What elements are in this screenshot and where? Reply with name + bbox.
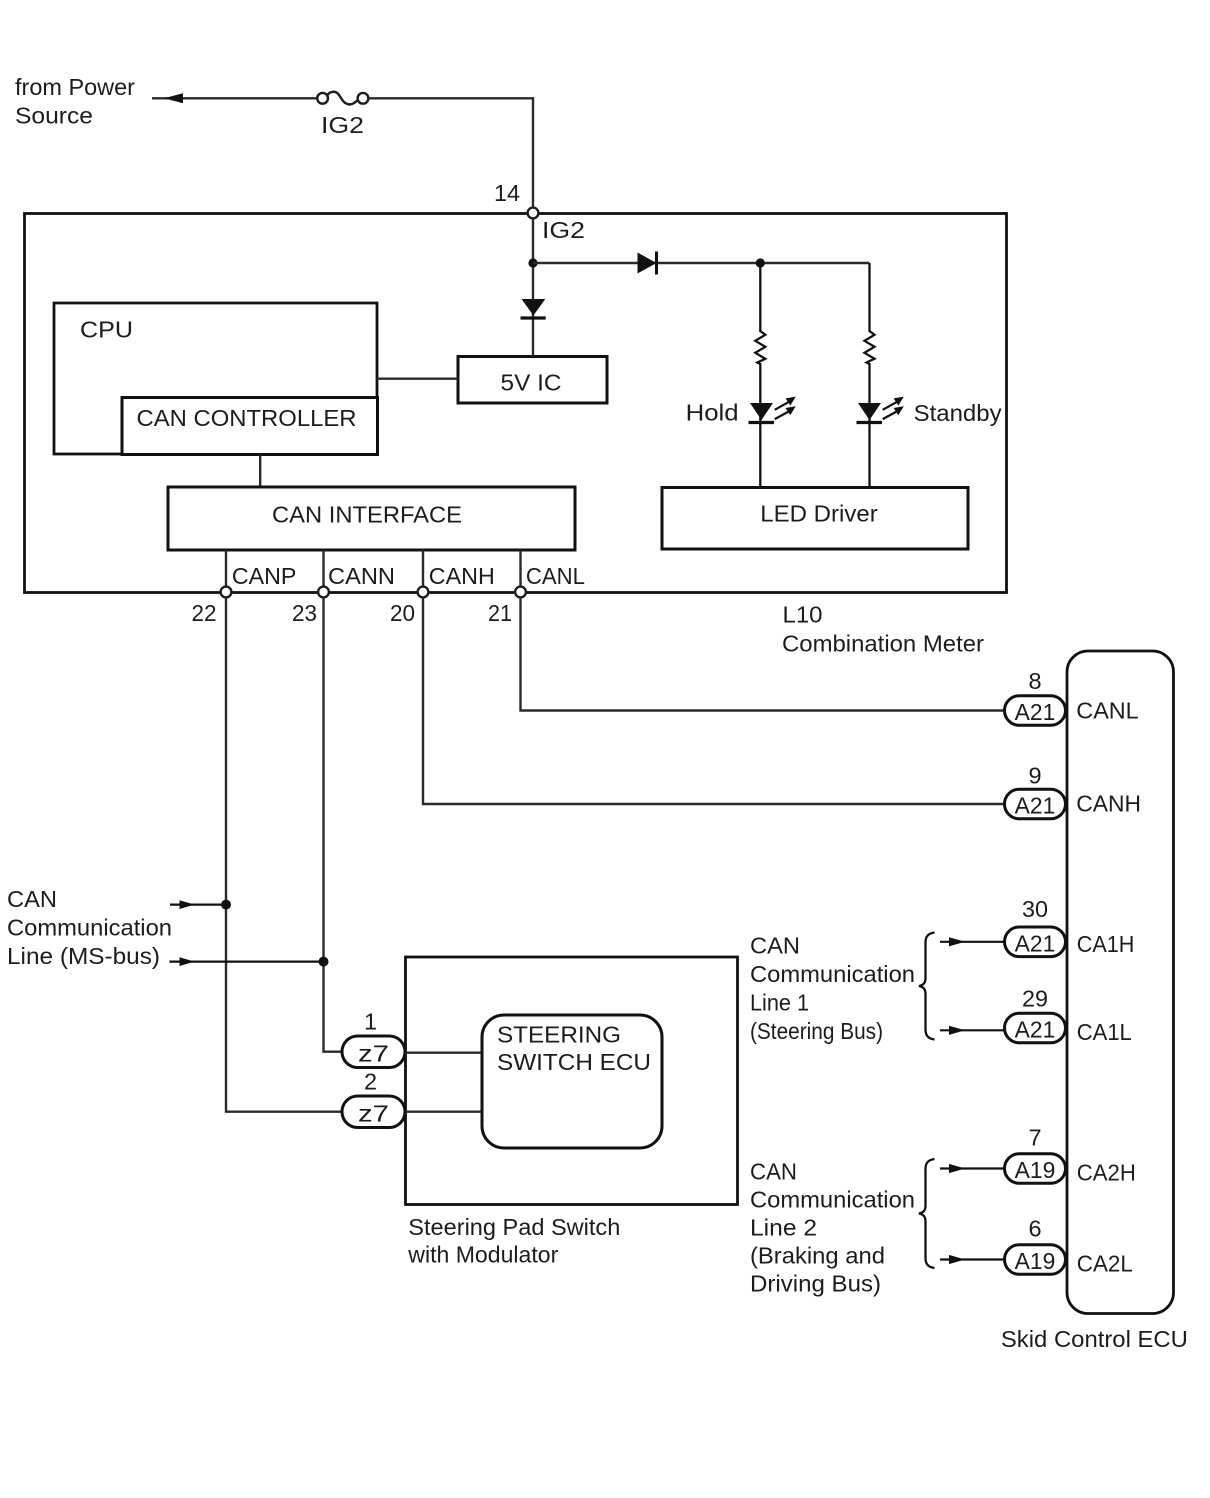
connector z7 pin 1	[342, 1036, 405, 1068]
connector z7 pin 2	[342, 1096, 405, 1128]
svg-text:from Power: from Power	[15, 74, 135, 100]
arrow to ECU pin 29	[940, 1029, 1004, 1031]
wire z7 pin1 to steering switch ecu	[406, 1051, 483, 1053]
svg-text:CANP: CANP	[232, 563, 297, 589]
wire z7 pin2 to steering switch ecu	[406, 1110, 483, 1112]
svg-text:A19: A19	[1015, 1157, 1056, 1183]
svg-text:A21: A21	[1015, 793, 1056, 819]
LED Standby	[858, 403, 881, 420]
junction dot on CANP wire	[221, 900, 231, 910]
svg-text:29: 29	[1022, 986, 1048, 1012]
svg-text:20: 20	[390, 600, 415, 626]
svg-text:CA2H: CA2H	[1077, 1159, 1136, 1185]
svg-text:CAN: CAN	[7, 886, 57, 912]
svg-text:A19: A19	[1015, 1248, 1056, 1274]
connector A21 pin 8	[1005, 696, 1066, 726]
svg-text:CANH: CANH	[429, 563, 495, 589]
arrowhead pointing left on power wire	[164, 93, 183, 103]
connector A19 pin 7	[1005, 1154, 1066, 1184]
svg-text:A21: A21	[1015, 930, 1056, 956]
arrow to ECU pin 6	[940, 1258, 1004, 1260]
svg-text:SWITCH ECU: SWITCH ECU	[497, 1049, 651, 1075]
resistor R1 (hold branch)	[755, 263, 765, 487]
pin circles at combination meter bottom	[221, 587, 232, 598]
svg-text:1: 1	[364, 1009, 377, 1035]
CAN INTERFACE box	[168, 487, 575, 550]
wire CPU to 5V IC	[377, 378, 458, 380]
combination meter box	[25, 214, 1007, 593]
connector A21 pin 9	[1005, 789, 1066, 819]
svg-text:Combination Meter: Combination Meter	[782, 631, 984, 657]
wire CANN	[322, 550, 324, 592]
svg-text:5V IC: 5V IC	[501, 370, 562, 396]
svg-text:Communication: Communication	[750, 961, 915, 987]
connector A21 pin 29	[1005, 1013, 1066, 1043]
wire pin22 CANP down to z7 pin2	[226, 598, 342, 1112]
MS-bus arrow 2	[169, 960, 323, 962]
diode D1 (horizontal)	[638, 253, 657, 274]
svg-text:CANN: CANN	[328, 563, 395, 589]
arrow to ECU pin 7	[940, 1167, 1004, 1169]
wire CANP	[225, 550, 227, 592]
svg-text:2: 2	[364, 1069, 377, 1095]
wire CANL	[519, 550, 521, 592]
svg-text:Source: Source	[15, 103, 93, 129]
wire pin23 CANN down to z7 pin1	[324, 598, 343, 1052]
svg-text:Line 1: Line 1	[750, 990, 809, 1016]
CPU box	[54, 303, 377, 454]
svg-text:CA1H: CA1H	[1077, 931, 1135, 957]
svg-text:Driving Bus): Driving Bus)	[750, 1271, 881, 1297]
LED Driver box	[662, 488, 968, 550]
pin 14 circle	[528, 208, 539, 219]
svg-text:Skid Control ECU: Skid Control ECU	[1001, 1326, 1188, 1352]
svg-text:Line (MS-bus): Line (MS-bus)	[7, 943, 160, 969]
svg-text:Line 2: Line 2	[750, 1215, 817, 1241]
svg-text:CANH: CANH	[1076, 790, 1141, 816]
svg-text:Communication: Communication	[7, 915, 172, 941]
LED Hold	[750, 403, 773, 420]
junction dot IG2 node	[528, 258, 537, 267]
wire CANH	[422, 550, 424, 592]
svg-text:LED Driver: LED Driver	[760, 501, 878, 527]
svg-text:(Braking and: (Braking and	[750, 1243, 885, 1269]
steering switch ecu rounded box	[482, 1015, 662, 1148]
svg-text:CAN: CAN	[750, 933, 800, 959]
wire CAN CONTROLLER to CAN INTERFACE	[259, 455, 261, 488]
wire pin21 CANL to ECU pin 8	[521, 598, 1005, 711]
wire pin14 down to 5V IC	[532, 219, 534, 357]
brace line 2	[919, 1159, 935, 1268]
diode D2 (vertical, above 5V IC)	[522, 299, 546, 316]
connector A19 pin 6	[1005, 1245, 1066, 1275]
svg-text:z7: z7	[358, 1041, 389, 1067]
wire fuse to corner and down to pin 14	[368, 98, 533, 208]
svg-text:(Steering Bus): (Steering Bus)	[750, 1018, 883, 1044]
svg-text:21: 21	[488, 600, 512, 626]
svg-text:CA1L: CA1L	[1077, 1019, 1132, 1045]
5V IC box	[458, 357, 607, 404]
skid control ECU box	[1067, 651, 1174, 1314]
MS-bus arrow 1	[170, 903, 226, 905]
wire from power source to fuse	[152, 97, 317, 99]
svg-text:CA2L: CA2L	[1077, 1251, 1133, 1277]
svg-text:9: 9	[1028, 763, 1041, 789]
svg-text:with Modulator: with Modulator	[407, 1242, 558, 1268]
CAN CONTROLLER box	[122, 398, 378, 455]
svg-text:CANL: CANL	[526, 563, 585, 589]
svg-text:6: 6	[1028, 1215, 1041, 1241]
svg-text:CAN INTERFACE: CAN INTERFACE	[272, 502, 462, 528]
steering pad switch outer box	[406, 957, 738, 1205]
svg-text:Standby: Standby	[914, 400, 1002, 426]
fuse IG2	[317, 93, 328, 104]
svg-text:IG2: IG2	[321, 112, 364, 138]
svg-text:CAN CONTROLLER: CAN CONTROLLER	[137, 405, 357, 431]
svg-text:CANL: CANL	[1076, 698, 1138, 724]
svg-text:30: 30	[1022, 896, 1048, 922]
svg-text:8: 8	[1028, 668, 1041, 694]
svg-text:22: 22	[192, 600, 217, 626]
wire IG2 node to right branch	[533, 262, 870, 264]
svg-text:Steering Pad Switch: Steering Pad Switch	[408, 1214, 620, 1240]
svg-text:14: 14	[494, 180, 520, 206]
svg-text:Communication: Communication	[750, 1187, 915, 1213]
svg-text:A21: A21	[1015, 699, 1056, 725]
svg-text:L10: L10	[783, 601, 823, 627]
svg-text:CAN: CAN	[750, 1159, 797, 1185]
svg-text:IG2: IG2	[542, 217, 585, 243]
svg-text:A21: A21	[1015, 1017, 1056, 1043]
connector A21 pin 30	[1005, 927, 1066, 957]
svg-text:CPU: CPU	[80, 317, 133, 343]
svg-text:23: 23	[292, 600, 317, 626]
svg-text:z7: z7	[358, 1101, 389, 1127]
wire pin20 CANH to ECU pin 9	[423, 598, 1004, 805]
svg-text:Hold: Hold	[686, 400, 739, 426]
svg-text:7: 7	[1028, 1124, 1041, 1150]
junction dot on CANN wire	[319, 957, 329, 967]
brace line 1	[919, 933, 935, 1040]
svg-text:STEERING: STEERING	[497, 1021, 621, 1047]
junction dot hold branch	[756, 258, 765, 267]
arrow to ECU pin 30	[940, 941, 1004, 943]
resistor R2 (standby branch)	[865, 263, 875, 487]
